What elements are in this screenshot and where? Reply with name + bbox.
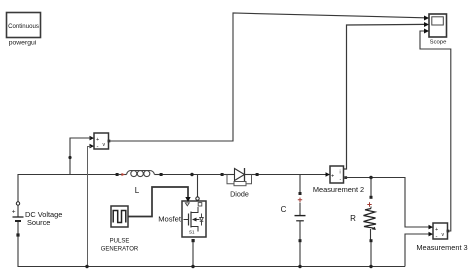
wire: Measurement 1 output to Scope input 1	[110, 13, 425, 141]
wire: drain vertical	[197, 175, 199, 198]
node on plus wire	[68, 156, 71, 159]
svg-text:S1: S1	[189, 230, 195, 235]
wire: pulse generator to mosfet gate	[128, 187, 188, 217]
svg-text:Scope: Scope	[430, 40, 447, 46]
wire: mosfet source to bottom rail	[192, 242, 194, 267]
junction dot C bottom	[298, 265, 301, 268]
Scope block	[424, 14, 447, 37]
svg-text:i: i	[340, 170, 341, 176]
mosfet source port	[192, 239, 195, 242]
powergui block	[7, 13, 41, 38]
Pulse Generator block	[111, 206, 128, 227]
svg-text:Continuous: Continuous	[8, 23, 39, 30]
svg-text:C: C	[281, 205, 287, 214]
junction dot bottom rail at x87	[85, 265, 88, 268]
wire: rail inductor to diode	[161, 174, 222, 176]
junction dot mosfet drain tap	[190, 173, 193, 176]
svg-text:+: +	[12, 209, 16, 216]
svg-text:Measurement 2: Measurement 2	[313, 185, 364, 194]
DC voltage source	[12, 202, 24, 237]
Measurement 2 block (current measurement)	[326, 166, 348, 183]
svg-text:R: R	[350, 214, 356, 223]
capacitor C branch	[295, 175, 306, 267]
svg-text:+: +	[435, 227, 438, 233]
wire: Measurement 2 signal output to Scope input 2	[344, 24, 425, 169]
Mosfet block	[182, 201, 206, 237]
resistor R branch	[364, 178, 377, 267]
svg-text:L: L	[135, 186, 140, 195]
svg-text:Measurement 3: Measurement 3	[416, 243, 467, 252]
svg-text:-: -	[97, 145, 99, 151]
junction dot	[191, 265, 194, 268]
wire: top rail left (source to inductor)	[18, 175, 117, 204]
diode D	[221, 168, 259, 186]
svg-text:+: +	[331, 174, 334, 180]
junction dot R bottom	[369, 265, 372, 268]
wire: rail right of Measurement 2	[347, 178, 429, 228]
svg-text:powergui: powergui	[9, 40, 37, 47]
wire: Measurement 1 minus input to bottom rail	[88, 147, 92, 267]
wire: bottom rail	[18, 235, 405, 267]
wire: rail diode to Measurement 2	[257, 174, 326, 176]
wire: bottom rail up to Measurement 3 minus input	[405, 234, 429, 267]
svg-text:+: +	[96, 137, 99, 143]
svg-text:PULSE: PULSE	[110, 238, 130, 244]
inductor L	[116, 171, 163, 177]
svg-text:GENERATOR: GENERATOR	[101, 246, 139, 252]
svg-text:Mosfet: Mosfet	[158, 215, 182, 224]
Measurement 3 block (voltage measurement)	[429, 223, 450, 241]
wire: Measurement 3 output to Scope input 3	[420, 31, 451, 231]
svg-text:Diode: Diode	[230, 189, 249, 198]
svg-text:Source: Source	[27, 218, 50, 227]
junction dot R tap	[369, 176, 372, 179]
svg-text:-: -	[436, 235, 438, 241]
wire: Measurement 1 plus input	[70, 138, 91, 175]
Measurement 1 block (voltage measurement)	[90, 133, 111, 151]
